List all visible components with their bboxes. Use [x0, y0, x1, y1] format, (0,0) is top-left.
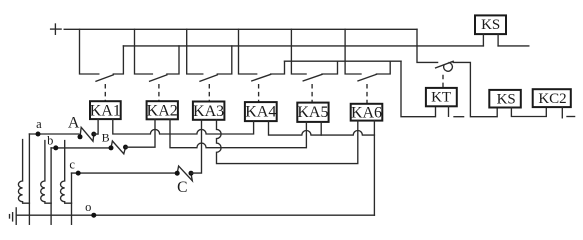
- CT primary conductor 3 with winding: [61, 141, 72, 204]
- dashed link contact KA5 to coil: [311, 84, 313, 103]
- relay coil KA6 box: [351, 104, 383, 122]
- CT secondary lead c: [71, 173, 73, 224]
- contact KA5: [291, 29, 337, 81]
- wire bus1 right drop to delayed contact: [417, 29, 438, 62]
- svg-text:KA3: KA3: [193, 103, 224, 120]
- wire switch B to KA2 coil: [126, 119, 156, 147]
- svg-text:KT: KT: [431, 90, 451, 106]
- switch C left contact dot: [175, 171, 180, 176]
- CT secondary lead b: [50, 148, 52, 224]
- bus3 wire: [285, 60, 402, 62]
- svg-text:a: a: [36, 117, 42, 131]
- switch A left contact dot: [78, 134, 83, 139]
- dashed link contact KA2 to coil: [158, 84, 160, 101]
- CT primary conductor 1 with winding: [18, 140, 29, 204]
- relay coil KA5 box: [297, 103, 328, 122]
- svg-text:B: B: [102, 130, 110, 144]
- switch A blade: [80, 127, 94, 141]
- svg-text:C: C: [177, 179, 187, 196]
- minus mark at KC2: [567, 116, 575, 118]
- svg-text:KA6: KA6: [351, 104, 382, 121]
- wire KA2 coil to KA5 coil (line2) with hops: [170, 119, 306, 147]
- svg-text:KS: KS: [481, 17, 500, 33]
- svg-text:KC2: KC2: [538, 91, 566, 107]
- switch C right contact dot: [189, 171, 194, 176]
- phase c wire: [72, 172, 178, 174]
- svg-text:c: c: [69, 158, 75, 172]
- wire KA1 coil to KA4 coil (line1) with hops: [113, 119, 254, 134]
- CT primary conductor 2 with winding: [41, 141, 51, 204]
- plus terminal +: [51, 24, 62, 34]
- contact KA2: [135, 29, 180, 81]
- switch A right contact dot: [91, 132, 96, 137]
- relay coil KS bottom box: [489, 90, 546, 117]
- svg-text:KS: KS: [497, 92, 516, 108]
- wire bus3 down to KT coil: [401, 61, 436, 116]
- wire KA6 right pin down to neutral line: [373, 121, 375, 216]
- dashed link contact KA4 to coil: [258, 84, 260, 102]
- switch C blade: [177, 166, 192, 181]
- phase b wire: [51, 147, 111, 149]
- delayed contact KT (time relay contact with cup): [436, 61, 498, 116]
- switch B right contact dot: [123, 145, 128, 150]
- dashed link contact KA1 to coil: [104, 84, 106, 101]
- svg-text:KA4: KA4: [245, 104, 276, 121]
- wire KA3 coil to KA6 coil (line3): [217, 120, 358, 164]
- svg-text:b: b: [47, 133, 53, 147]
- minus mark at KT: [454, 116, 464, 118]
- relay coil KA4 box: [245, 102, 277, 121]
- CT secondary lead a: [28, 134, 30, 224]
- node a dot: [36, 132, 41, 137]
- wire switch C to KA3 coil: [191, 120, 202, 173]
- relay coil KC2 box: [533, 89, 571, 118]
- contact KA3: [187, 29, 232, 81]
- bus2 right segment after KS: [498, 45, 529, 47]
- dashed link KT contact to KT coil: [442, 75, 444, 88]
- relay coil KA1 box: [90, 101, 121, 119]
- switch B left contact dot: [109, 145, 114, 150]
- svg-text:o: o: [85, 200, 91, 214]
- svg-text:A: A: [68, 115, 80, 132]
- svg-text:KA5: KA5: [297, 104, 328, 121]
- switch B blade: [111, 141, 126, 154]
- contact KA4: [239, 29, 285, 81]
- phase a wire: [29, 133, 78, 135]
- contact KA1 (NO contact of relay KA1): [80, 29, 124, 81]
- relay coil KS top box: [475, 15, 506, 46]
- svg-text:KA2: KA2: [147, 103, 178, 120]
- ground symbol: [10, 208, 17, 224]
- contact KA6: [345, 29, 390, 81]
- neutral o wire: [16, 214, 374, 216]
- bus1 positive bus wire: [64, 28, 417, 30]
- dashed link contact KA6 to coil: [366, 84, 368, 104]
- wire switch A to KA1 coil: [94, 119, 98, 134]
- relay coil KT box: [426, 88, 457, 116]
- wire KA4 KA5 KA6 coils to neutral (line4) with hops: [269, 121, 375, 135]
- relay coil KA2 box: [147, 101, 178, 119]
- node c dot: [76, 171, 81, 176]
- dashed link contact KA3 to coil: [208, 84, 210, 102]
- wire KA5 right pin: [320, 122, 322, 135]
- node b dot: [53, 145, 58, 150]
- node o dot: [91, 213, 96, 218]
- bus2 wire: [123, 45, 483, 47]
- svg-text:KA1: KA1: [90, 102, 121, 119]
- relay coil KA3 box: [193, 102, 225, 120]
